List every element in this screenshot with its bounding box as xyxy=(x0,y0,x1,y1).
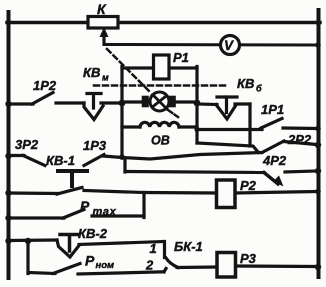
svg-text:4Р2: 4Р2 xyxy=(262,153,287,168)
svg-text:Р: Р xyxy=(80,198,90,214)
svg-text:ном: ном xyxy=(96,260,115,271)
svg-text:Р: Р xyxy=(85,253,95,269)
svg-text:Р1: Р1 xyxy=(173,50,189,65)
svg-text:2Р2: 2Р2 xyxy=(287,132,312,147)
svg-text:БК-1: БК-1 xyxy=(174,239,203,254)
svg-text:б: б xyxy=(256,84,262,94)
svg-text:Р2: Р2 xyxy=(240,178,257,193)
svg-text:м: м xyxy=(102,73,109,83)
svg-text:1: 1 xyxy=(150,241,157,256)
svg-text:К: К xyxy=(97,1,107,17)
svg-text:1Р2: 1Р2 xyxy=(33,78,57,93)
svg-text:КВ: КВ xyxy=(237,76,254,91)
svg-text:ОВ: ОВ xyxy=(151,134,170,148)
svg-text:3Р2: 3Р2 xyxy=(15,137,39,152)
svg-text:КВ-1: КВ-1 xyxy=(46,153,75,168)
svg-text:max: max xyxy=(93,206,117,218)
svg-text:КВ: КВ xyxy=(83,65,100,80)
svg-text:Р3: Р3 xyxy=(240,251,257,266)
svg-text:КВ-2: КВ-2 xyxy=(78,226,108,241)
svg-text:1Р3: 1Р3 xyxy=(83,138,107,153)
svg-text:V: V xyxy=(224,38,234,53)
svg-text:1Р1: 1Р1 xyxy=(261,102,284,117)
svg-text:2: 2 xyxy=(145,258,154,273)
